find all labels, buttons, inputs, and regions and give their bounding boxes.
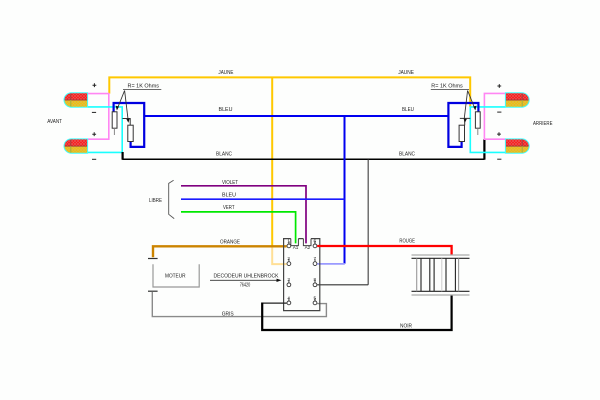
LIBRE bracket [169, 180, 175, 218]
wire VIOLET libre [181, 186, 306, 244]
pin 8 [313, 277, 317, 286]
svg-text:5: 5 [314, 295, 317, 300]
svg-text:AVANT: AVANT [47, 119, 62, 125]
LED arriere 2 [505, 139, 529, 153]
pin 2 [287, 256, 291, 266]
wire BLANC [122, 158, 484, 160]
svg-text:BLEU: BLEU [402, 107, 414, 113]
svg-text:76420: 76420 [240, 283, 251, 289]
svg-text:6: 6 [314, 238, 317, 243]
blue loop arriere [448, 103, 478, 147]
resistor R avant 1 [112, 112, 117, 135]
svg-text:BLANC: BLANC [216, 151, 232, 157]
svg-text:R= 1K Ohms: R= 1K Ohms [128, 83, 160, 89]
svg-text:BLANC: BLANC [399, 151, 415, 157]
wire ORANGE [153, 246, 287, 257]
resistor R arriere 2 [459, 118, 470, 141]
svg-text:NOIR: NOIR [400, 324, 412, 330]
svg-text:8: 8 [314, 277, 317, 282]
wire VERT libre [181, 212, 296, 244]
resistor R arriere 1 [475, 112, 480, 135]
wire rose arriere (+) [484, 93, 505, 139]
svg-text:4: 4 [287, 295, 290, 300]
decoder U1 body [284, 239, 320, 311]
LED avant 1 [64, 93, 88, 107]
svg-text:VIOLET: VIOLET [222, 180, 238, 186]
svg-text:DECODEUR UHLENBROCK: DECODEUR UHLENBROCK [214, 273, 279, 279]
svg-text:GRIS: GRIS [222, 311, 234, 317]
wire BLEU libre [181, 198, 345, 200]
label + led1 [93, 83, 97, 87]
svg-text:ROUGE: ROUGE [399, 239, 415, 245]
svg-text:7: 7 [314, 256, 317, 261]
svg-text:3: 3 [287, 277, 290, 282]
pin 1 [287, 238, 291, 248]
wire GRIS [152, 292, 326, 317]
callout R=1K Ohms left [116, 83, 162, 123]
label - led2 [92, 158, 96, 160]
blue loop avant [114, 103, 145, 147]
wire rose avant (+) [88, 94, 109, 140]
label + led4 [497, 132, 501, 136]
wire jaune branch to pin 2 [271, 77, 273, 245]
svg-text:R= 1K Ohms: R= 1K Ohms [431, 83, 463, 89]
LED avant 2 [64, 139, 88, 153]
wire cyan arriere (-) [470, 107, 505, 152]
label + led3 [497, 84, 501, 88]
svg-text:1: 1 [287, 238, 290, 243]
decoder notch A1 [291, 239, 299, 246]
svg-text:VERT: VERT [223, 205, 235, 211]
svg-text:MOTEUR: MOTEUR [165, 273, 186, 279]
label - led3 [497, 111, 501, 113]
motor terminal bottom [148, 290, 158, 292]
svg-text:BLEU: BLEU [219, 107, 233, 113]
decoder notch A2 [303, 239, 311, 246]
wire bleu branch to pin 7 [344, 116, 346, 264]
LED arriere 1 [505, 93, 529, 107]
svg-text:ARRIERE: ARRIERE [533, 121, 553, 127]
svg-text:JAUNE: JAUNE [218, 70, 233, 76]
wire JAUNE top [109, 77, 470, 107]
pin 7 [313, 256, 317, 266]
pin 4 [287, 295, 291, 305]
resistor R avant 2 [122, 119, 133, 142]
pin 3 [287, 277, 291, 286]
svg-text:BLEU: BLEU [222, 192, 236, 198]
wire cyan avant (-) [88, 107, 122, 152]
decoder label DECODEUR UHLENBROCK 76420 [210, 273, 282, 288]
pin 5 [313, 295, 317, 305]
wire blanc branch to pin 8 [367, 160, 369, 285]
rails (track) [412, 255, 470, 295]
wire ROUGE [317, 246, 451, 255]
svg-text:A1: A1 [293, 245, 299, 250]
svg-text:A2: A2 [305, 245, 311, 250]
svg-text:2: 2 [287, 256, 290, 261]
svg-text:LIBRE: LIBRE [149, 198, 162, 204]
svg-text:JAUNE: JAUNE [398, 70, 414, 76]
wire NOIR from pin 4 [262, 302, 287, 304]
wire BLEU main [144, 115, 448, 117]
callout R=1K Ohms right [431, 83, 477, 123]
pin 6 [313, 238, 317, 248]
label - led4 [497, 158, 501, 160]
label - led1 [92, 111, 96, 113]
svg-text:ORANGE: ORANGE [220, 240, 240, 246]
motor terminal top [148, 258, 158, 260]
label + led2 [92, 132, 96, 136]
motor MOTEUR box [153, 264, 199, 287]
